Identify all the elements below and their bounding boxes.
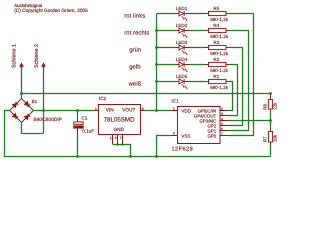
junction Schiene2 column / plus wire [42, 109, 45, 112]
svg-text:VOUT: VOUT [122, 107, 135, 112]
wire bus to LED5 [157, 81, 176, 83]
svg-text:680-1.2k: 680-1.2k [210, 34, 229, 39]
LED LED3 [176, 45, 190, 55]
wire R3 to PIC pin [228, 48, 243, 126]
svg-text:LED4: LED4 [176, 57, 188, 62]
svg-text:10k: 10k [273, 134, 278, 142]
svg-text:3: 3 [221, 112, 223, 116]
svg-text:rot links: rot links [124, 13, 145, 20]
title text [14, 3, 88, 14]
junction bus row 5 [155, 80, 158, 83]
IC1 pin VSS [171, 135, 178, 137]
IC2 pin VOUT [141, 110, 146, 112]
wire VOUT to VDD [146, 110, 171, 112]
svg-text:C1: C1 [81, 116, 87, 121]
svg-text:LED5: LED5 [176, 74, 188, 79]
svg-text:VSS: VSS [181, 133, 190, 138]
junction VSS gnd rail [155, 155, 158, 158]
LED LED1 [176, 11, 190, 21]
svg-text:8: 8 [173, 132, 175, 136]
wire R5 to PIC pin [228, 14, 254, 136]
svg-text:LED2: LED2 [176, 23, 188, 28]
junction IC2 gnd pin 2 [116, 143, 118, 145]
bridge rectifier B1 [10, 99, 34, 123]
IC1 pin GP4/COUT [220, 115, 228, 117]
wire C1 top stub [77, 111, 79, 116]
svg-text:7: 7 [221, 132, 223, 136]
wire raw supply rail [22, 93, 271, 95]
svg-text:GND: GND [114, 127, 125, 132]
svg-text:Ausfahrtsignal: Ausfahrtsignal [14, 3, 42, 8]
wire bridge bottom loop [22, 123, 44, 134]
junction raw rail / Schiene 1 [20, 92, 23, 95]
svg-text:weiß: weiß [128, 81, 142, 88]
wire R4 to PIC pin [228, 31, 249, 131]
svg-text:GP0: GP0 [207, 133, 216, 138]
wire 5V bus vertical [156, 14, 158, 111]
svg-text:680-1.2k: 680-1.2k [210, 85, 229, 90]
IC1 pin GP5/C/IN [220, 110, 228, 112]
junction IC2 gnd pin 3 [121, 143, 123, 145]
svg-text:8: 8 [142, 107, 144, 111]
svg-text:680-1.2k: 680-1.2k [210, 51, 229, 56]
wire node to R7 [270, 121, 272, 128]
svg-text:1: 1 [173, 107, 175, 111]
svg-text:1: 1 [95, 107, 97, 111]
wire R2 to PIC pin [228, 65, 238, 116]
junction bus row 4 [155, 63, 158, 66]
svg-text:R2: R2 [213, 57, 219, 62]
svg-text:R3: R3 [213, 40, 219, 45]
resistor R5 [205, 11, 231, 15]
svg-text:Schiene 2: Schiene 2 [34, 44, 40, 68]
svg-text:6: 6 [221, 127, 223, 131]
IC2 pin VIN [95, 110, 99, 112]
junction IC2 gnd rail [129, 155, 132, 158]
LED LED2 [176, 28, 190, 38]
wire GP3 to divider node [228, 120, 271, 122]
junction raw rail R8 [269, 92, 272, 95]
svg-text:4: 4 [221, 117, 223, 121]
LED LED4 [176, 62, 190, 72]
svg-text:680-1.2k: 680-1.2k [210, 17, 229, 22]
svg-text:0.1uF: 0.1uF [82, 128, 94, 133]
svg-text:R1: R1 [213, 74, 219, 79]
svg-text:2: 2 [110, 136, 112, 140]
IC1 pin VDD [171, 110, 178, 112]
IC2 pin numbers [95, 107, 144, 140]
wire Schiene 1 vertical [21, 67, 23, 98]
svg-text:IC1: IC1 [172, 99, 180, 104]
wire bus to LED2 [157, 30, 176, 32]
IC1 pin GP3/MC [220, 120, 228, 122]
svg-text:grün: grün [129, 48, 141, 54]
junction bus row 2 [155, 29, 158, 32]
wire bridge plus to IC2 VIN [34, 110, 95, 112]
wire LED3 to R3 [190, 47, 205, 49]
LED LED5 [176, 79, 190, 89]
svg-text:Schiene 1: Schiene 1 [11, 44, 17, 68]
resistor R3 [205, 45, 231, 49]
connector arrow Schiene 2 [41, 62, 46, 68]
IC1 pin GP1 [220, 130, 228, 132]
svg-text:gelb: gelb [129, 64, 140, 71]
svg-text:3: 3 [115, 136, 117, 140]
svg-text:2: 2 [221, 107, 223, 111]
svg-text:LED1: LED1 [176, 6, 188, 11]
wire C1 bottom to GND [77, 135, 79, 157]
svg-text:R5: R5 [213, 6, 219, 11]
capacitor C1 [74, 115, 83, 134]
resistor R7 [268, 128, 272, 146]
svg-text:rot rechts: rot rechts [124, 30, 149, 37]
wire LED4 to R2 [190, 64, 205, 66]
junction bus row 3 [155, 46, 158, 49]
junction C1 top [76, 109, 79, 112]
wire bus to LED3 [157, 47, 176, 49]
svg-text:7: 7 [120, 136, 122, 140]
resistor R1 [205, 79, 231, 83]
svg-text:VDD: VDD [181, 108, 191, 113]
svg-text:680-1.2k: 680-1.2k [210, 68, 229, 73]
svg-text:12F629: 12F629 [172, 146, 194, 152]
wire bus to LED1 [157, 13, 176, 15]
wire R8 to node [270, 113, 272, 121]
svg-text:5: 5 [221, 122, 223, 126]
svg-text:VIN: VIN [106, 107, 114, 112]
svg-text:IC2: IC2 [99, 96, 107, 101]
junction divider node [269, 119, 272, 122]
svg-text:R8: R8 [263, 104, 268, 110]
wire Schiene 2 vertical [43, 67, 45, 133]
junction 5V bus [155, 109, 158, 112]
wire LED5 to R1 [190, 81, 205, 83]
svg-text:78L05SMD: 78L05SMD [104, 116, 135, 123]
resistor R2 [205, 62, 231, 66]
junction C1 GND [76, 155, 79, 158]
wire LED1 to R5 [190, 13, 205, 15]
resistor R4 [205, 28, 231, 32]
wire LED2 to R4 [190, 30, 205, 32]
svg-text:R4: R4 [213, 23, 219, 28]
svg-text:(C) Copyright Gorden Griem, 20: (C) Copyright Gorden Griem, 2005 [14, 8, 88, 14]
wire GND rail loop [5, 111, 271, 157]
voltage regulator IC2 box [99, 105, 141, 135]
svg-text:22k: 22k [273, 102, 278, 110]
IC2 GND pins [113, 135, 123, 144]
IC1 pin GP2 [220, 125, 228, 127]
IC1 pin GP0 [220, 135, 228, 137]
wire IC2 GND bus [113, 145, 131, 157]
wire R1 to PIC pin [228, 82, 233, 111]
svg-text:B1: B1 [32, 99, 38, 104]
svg-text:R7: R7 [263, 136, 268, 142]
microcontroller IC1 box [178, 107, 221, 144]
wire VSS to GND [157, 136, 171, 157]
wire bus to LED4 [157, 64, 176, 66]
wire R7 to GND [270, 146, 272, 157]
svg-text:B40C800DIP: B40C800DIP [33, 117, 62, 123]
resistor R8 [268, 94, 272, 113]
connector arrow Schiene 1 [19, 62, 24, 68]
svg-text:LED3: LED3 [176, 40, 188, 45]
